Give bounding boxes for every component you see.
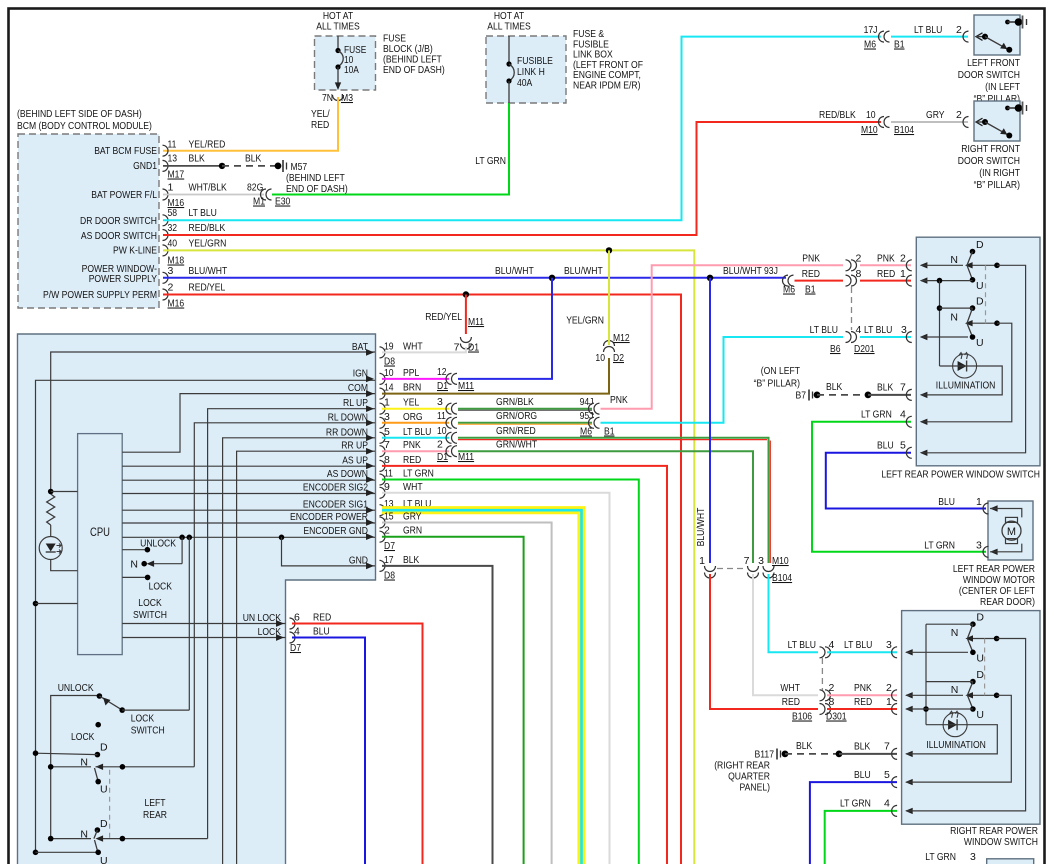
svg-text:RED/BLK: RED/BLK [189, 222, 226, 234]
fusible link H symbol 40A [508, 36, 510, 63]
wire ENCODER POWER internal [122, 522, 375, 524]
svg-text:D301: D301 [826, 711, 847, 723]
wire RED/YEL branch down to M11/D1 pin 7 [465, 295, 467, 335]
wire LT BLU from connector to right rear switch pin 3 [827, 651, 897, 653]
svg-text:2: 2 [886, 682, 892, 694]
svg-text:3: 3 [437, 396, 443, 408]
svg-text:LT BLU: LT BLU [914, 24, 942, 36]
left front door switch contacts [976, 33, 983, 41]
svg-text:ILLUMINATION: ILLUMINATION [936, 380, 996, 392]
svg-text:9: 9 [384, 481, 390, 493]
wire RED from D301 to right rear switch pin 1 [827, 708, 897, 710]
svg-text:GND1: GND1 [133, 160, 157, 172]
svg-text:AS DOWN: AS DOWN [327, 468, 368, 480]
svg-text:2: 2 [856, 253, 862, 265]
svg-text:7: 7 [744, 555, 750, 567]
svg-text:BCM (BODY CONTROL MODULE): BCM (BODY CONTROL MODULE) [17, 120, 152, 132]
svg-text:32: 32 [168, 222, 178, 234]
pin entry arrow [892, 647, 898, 658]
svg-text:RED/YEL: RED/YEL [189, 282, 226, 294]
svg-text:BLU/WHT: BLU/WHT [564, 265, 603, 277]
pin entry arrow [906, 447, 912, 458]
svg-text:D7: D7 [290, 642, 301, 654]
wire LOCK internal [122, 637, 285, 639]
svg-text:ORG: ORG [403, 411, 423, 423]
vertical lamp feed [939, 281, 941, 366]
svg-text:REAR DOOR): REAR DOOR) [980, 596, 1035, 608]
left rear power window motor box [988, 501, 1033, 560]
svg-text:3: 3 [168, 265, 174, 277]
svg-text:4: 4 [294, 626, 300, 638]
svg-text:ILLUMINATION: ILLUMINATION [926, 739, 986, 751]
wire WHT below M10 pin7 to D301 pin 2 [753, 574, 818, 695]
junction dots encoder gnd row [179, 535, 185, 541]
wire lamp lead to pin 7 [906, 725, 997, 754]
svg-text:4: 4 [900, 409, 906, 421]
BCM (body control module) box [18, 134, 159, 308]
svg-text:RR DOWN: RR DOWN [326, 426, 368, 438]
pin entry arrow [892, 704, 897, 715]
svg-text:1: 1 [900, 268, 906, 280]
svg-text:LOCK: LOCK [71, 731, 94, 743]
svg-text:WHT: WHT [403, 340, 423, 352]
svg-text:LT BLU: LT BLU [189, 207, 217, 219]
wire lower switch common to pin 5 [906, 695, 1011, 782]
wire upper switch common to pin 5 [921, 265, 1026, 453]
svg-text:BAT BCM FUSE: BAT BCM FUSE [94, 145, 157, 157]
svg-text:40A: 40A [517, 77, 532, 89]
svg-text:DOOR SWITCH: DOOR SWITCH [958, 155, 1020, 167]
svg-text:BLK: BLK [245, 153, 261, 165]
svg-text:GRN/RED: GRN/RED [496, 425, 536, 437]
svg-text:3: 3 [758, 555, 764, 567]
wire LT BLU from 95J up to B6/D201 [601, 337, 844, 423]
svg-text:D: D [976, 239, 984, 251]
riser N arm to encoder gnd row [181, 537, 183, 563]
wire RR UP internal [237, 451, 375, 864]
svg-text:6: 6 [294, 612, 300, 624]
svg-text:GRN/BLK: GRN/BLK [496, 396, 534, 408]
switch U contact [967, 695, 973, 709]
wire GRN/BLK to connector 94J [458, 408, 592, 410]
connector 93J M6/B1 on RED row [783, 275, 788, 286]
svg-text:13: 13 [168, 153, 178, 165]
lock switch (upper) LOCK contact [122, 576, 147, 578]
wire COM internal to CPU [122, 394, 375, 453]
svg-text:2: 2 [437, 439, 443, 451]
svg-text:BLU: BLU [313, 626, 330, 638]
connector M3 pin 7N below fuse block [333, 95, 344, 101]
svg-text:RED: RED [313, 612, 332, 624]
wire LT GRN to right rear switch pin 4 [825, 811, 897, 864]
illumination lamp circle [943, 713, 967, 737]
pin entry arrow [906, 389, 912, 400]
svg-text:3: 3 [384, 411, 390, 423]
svg-text:D8: D8 [384, 356, 395, 368]
wire ENCODER SIG2 internal [122, 493, 375, 495]
wire BLU/WHT down to M10 pin 1 [709, 278, 711, 563]
svg-text:GRY: GRY [926, 109, 945, 121]
power window main switch box [18, 334, 376, 864]
svg-text:PNK: PNK [854, 682, 872, 694]
svg-text:10: 10 [384, 367, 394, 379]
connector M1 / E30 [261, 189, 267, 200]
right rear power window motor box (cut off at page bottom) [987, 859, 1034, 864]
svg-text:PNK: PNK [610, 394, 628, 406]
connector D201 rows (pins 2,8,4) arcs [846, 260, 852, 271]
svg-text:LT BLU: LT BLU [810, 324, 838, 336]
svg-text:RL DOWN: RL DOWN [328, 411, 368, 423]
svg-text:BLU: BLU [938, 496, 955, 508]
svg-text:AS UP: AS UP [342, 454, 368, 466]
svg-text:D1: D1 [437, 451, 448, 463]
pin entry arrow [906, 260, 912, 271]
svg-text:“B” PILLAR): “B” PILLAR) [974, 179, 1020, 191]
svg-text:N: N [950, 312, 958, 324]
node junction at resistor top [48, 489, 54, 495]
svg-text:U: U [976, 709, 984, 721]
svg-text:SWITCH: SWITCH [133, 609, 167, 621]
svg-text:M10: M10 [861, 124, 878, 136]
svg-text:8: 8 [856, 268, 862, 280]
svg-text:P/W POWER SUPPLY PERM: P/W POWER SUPPLY PERM [43, 289, 157, 301]
svg-text:M3: M3 [341, 92, 353, 104]
svg-text:END OF DASH): END OF DASH) [286, 183, 348, 195]
svg-text:3: 3 [976, 540, 982, 552]
svg-text:RED/YEL: RED/YEL [425, 311, 462, 323]
motor M symbol [1002, 521, 1021, 540]
svg-text:19: 19 [384, 340, 394, 352]
svg-text:LT BLU: LT BLU [864, 324, 892, 336]
wire RED/BLK BCM pin32 to M10 connector [163, 122, 881, 235]
svg-text:COM: COM [348, 382, 368, 394]
wire pin2 to lower switch arm [906, 694, 963, 696]
svg-text:BLK: BLK [189, 153, 205, 165]
CPU block [78, 434, 123, 655]
svg-text:IGN: IGN [353, 367, 368, 379]
svg-text:UN LOCK: UN LOCK [243, 612, 281, 624]
mechanical link dashed [985, 265, 987, 323]
wire upper D to lamp bus [926, 623, 973, 625]
wire UN LOCK internal [122, 623, 285, 625]
svg-text:BAT: BAT [352, 341, 369, 353]
svg-text:CPU: CPU [90, 527, 110, 539]
svg-text:ALL TIMES: ALL TIMES [316, 21, 360, 33]
pin entry arrow [906, 416, 912, 427]
svg-text:4: 4 [884, 798, 890, 810]
svg-text:M11: M11 [468, 316, 484, 328]
svg-text:3: 3 [901, 324, 907, 336]
svg-text:D201: D201 [854, 343, 875, 355]
svg-text:BLK: BLK [854, 741, 870, 753]
svg-text:8: 8 [829, 696, 835, 708]
svg-text:D7: D7 [384, 540, 395, 552]
svg-text:RED: RED [854, 696, 873, 708]
bottom contact row [33, 850, 39, 856]
svg-text:PNK: PNK [802, 253, 820, 265]
svg-text:LT BLU: LT BLU [788, 639, 816, 651]
wire pin3 to lower U contact [921, 336, 968, 338]
svg-text:11: 11 [437, 410, 446, 422]
svg-text:BLK: BLK [877, 382, 893, 394]
svg-text:M11: M11 [458, 380, 474, 392]
svg-text:GRN/ORG: GRN/ORG [496, 410, 537, 422]
svg-text:BAT POWER F/L: BAT POWER F/L [91, 189, 157, 201]
svg-text:10: 10 [595, 352, 605, 364]
svg-text:ALL TIMES: ALL TIMES [487, 21, 531, 33]
pin entry arrow [892, 777, 898, 788]
svg-text:ENCODER SIG1: ENCODER SIG1 [303, 499, 368, 511]
svg-text:M: M [1007, 526, 1016, 538]
svg-text:M10: M10 [772, 555, 789, 567]
svg-text:PPL: PPL [403, 367, 419, 379]
wire GRN/RED to M10 pin 3 [458, 438, 769, 563]
svg-text:REAR: REAR [143, 809, 167, 821]
right front door switch contacts [976, 118, 983, 126]
svg-text:BLK: BLK [403, 554, 419, 566]
svg-text:2: 2 [956, 24, 962, 36]
left front door switch box [974, 15, 1020, 55]
svg-text:D: D [100, 742, 108, 754]
svg-text:2: 2 [829, 682, 835, 694]
svg-text:2: 2 [168, 282, 174, 294]
pin entry arrow [906, 275, 912, 286]
wire RR DOWN internal [223, 438, 375, 864]
svg-text:ENCODER POWER: ENCODER POWER [290, 511, 368, 523]
svg-text:LEFT FRONT: LEFT FRONT [967, 57, 1020, 69]
svg-text:11: 11 [168, 139, 177, 151]
svg-text:5: 5 [384, 426, 390, 438]
svg-text:B104: B104 [894, 124, 914, 136]
svg-text:RED: RED [782, 696, 801, 708]
svg-text:RIGHT FRONT: RIGHT FRONT [961, 143, 1020, 155]
svg-text:2: 2 [384, 525, 390, 537]
wire RL DOWN internal [194, 423, 375, 767]
fuse & fusible link box [486, 36, 566, 103]
svg-text:B1: B1 [894, 39, 905, 51]
svg-text:PNK: PNK [403, 439, 421, 451]
wire RED from 93J to D201 pin 8 and switch pin 1 [795, 280, 844, 282]
pin entry arrow [892, 805, 898, 816]
connector D2 pin 10 / M12 (vertical) [604, 347, 615, 353]
svg-text:POWER SUPPLY: POWER SUPPLY [89, 273, 157, 285]
svg-text:E30: E30 [275, 196, 290, 208]
junction left bus to CPU [33, 601, 39, 607]
fuse F symbol 10A [337, 36, 339, 50]
svg-text:94J: 94J [580, 396, 594, 408]
svg-text:WHT/BLK: WHT/BLK [189, 182, 227, 194]
wire LED bottom to CPU [51, 560, 78, 571]
svg-text:LT GRN: LT GRN [861, 409, 892, 421]
svg-text:U: U [976, 337, 984, 349]
wire YEL/GRN from M12 up to K-line row [608, 250, 610, 345]
svg-text:YEL/RED: YEL/RED [189, 139, 226, 151]
svg-text:3: 3 [970, 851, 976, 863]
svg-text:3: 3 [886, 639, 892, 651]
wire RED/YEL perm supply: right then down page [163, 295, 681, 864]
svg-text:M11: M11 [458, 451, 474, 463]
svg-text:(ON LEFT: (ON LEFT [761, 365, 801, 377]
svg-text:RED: RED [403, 454, 422, 466]
wire RED from D201 to left rear switch pin 1 [860, 280, 911, 282]
svg-text:LT GRN: LT GRN [925, 851, 956, 863]
svg-text:4: 4 [829, 639, 835, 651]
svg-text:N: N [130, 559, 138, 571]
lamp bus vertical [925, 624, 927, 725]
wire lower switch common to pin 4 [921, 323, 1012, 422]
wire pin1 to U contact with junction [921, 280, 973, 282]
wire PNK from D201 to left rear switch pin 2 [860, 264, 911, 266]
ground pigtail of left front door switch [1022, 16, 1024, 29]
svg-text:B1: B1 [805, 284, 816, 296]
riser lock switch lower [188, 537, 190, 710]
wire resistor to LED [50, 525, 52, 537]
svg-text:GND: GND [349, 554, 368, 566]
svg-text:7: 7 [384, 439, 390, 451]
svg-text:UNLOCK: UNLOCK [58, 682, 94, 694]
wire lower D contact [926, 681, 973, 683]
svg-text:D2: D2 [613, 352, 624, 364]
svg-text:5: 5 [900, 440, 906, 452]
svg-text:AS DOOR SWITCH: AS DOOR SWITCH [81, 230, 157, 242]
svg-text:B1: B1 [604, 426, 615, 438]
svg-text:15: 15 [384, 511, 394, 523]
svg-text:LT GRN: LT GRN [475, 155, 506, 167]
resistor R (pull-up) [47, 494, 55, 525]
svg-text:M6: M6 [783, 284, 795, 296]
wire LT GRN to left rear switch pin 4 (from motor) [812, 422, 986, 552]
svg-text:LOCK: LOCK [138, 597, 161, 609]
svg-text:N: N [951, 627, 959, 639]
wire RED below M10 pin1 to D301 pin 8 [710, 574, 818, 709]
svg-text:LT BLU: LT BLU [844, 639, 872, 651]
svg-text:7: 7 [900, 382, 906, 394]
svg-text:2: 2 [956, 109, 962, 121]
wire pin1 to lower U contact [906, 708, 973, 710]
wire GRN/WHT to M10 pin 7 [458, 451, 753, 563]
svg-text:M1: M1 [253, 196, 265, 208]
svg-text:1: 1 [699, 555, 705, 567]
svg-text:WINDOW SWITCH: WINDOW SWITCH [964, 836, 1038, 848]
svg-text:1: 1 [976, 496, 982, 508]
connector M10/B104 (pins 1,7,3) [705, 566, 716, 572]
svg-text:7N: 7N [322, 92, 333, 104]
svg-text:PNK: PNK [877, 253, 895, 265]
svg-text:U: U [100, 855, 108, 864]
illumination lamp circle [953, 354, 977, 378]
svg-text:BLU: BLU [854, 769, 871, 781]
svg-text:(BEHIND LEFT SIDE OF DASH): (BEHIND LEFT SIDE OF DASH) [17, 108, 142, 120]
wire YEL/GRN BCM pin40 east then down page [163, 250, 694, 864]
wire BLU/WHT from M11 up to supply row [458, 278, 552, 379]
svg-text:YEL/GRN: YEL/GRN [189, 237, 227, 249]
svg-text:11: 11 [384, 468, 393, 480]
svg-text:D: D [976, 669, 984, 681]
svg-text:U: U [100, 784, 108, 796]
svg-text:LT GRN: LT GRN [403, 468, 434, 480]
svg-text:17: 17 [384, 554, 394, 566]
ground pigtail of right front door switch [1022, 102, 1024, 115]
svg-text:NEAR IPDM E/R): NEAR IPDM E/R) [573, 80, 641, 92]
svg-text:WHT: WHT [780, 682, 800, 694]
svg-text:DR DOOR SWITCH: DR DOOR SWITCH [80, 215, 157, 227]
svg-text:U: U [976, 652, 984, 664]
svg-text:N: N [951, 684, 959, 696]
wire BLK dashed from B7 to left rear switch pin 7 [817, 394, 868, 396]
svg-text:2: 2 [900, 253, 906, 265]
svg-text:RED: RED [802, 268, 821, 280]
switch U contact [967, 323, 973, 337]
svg-text:14: 14 [384, 382, 394, 394]
junction on YEL/GRN wire [606, 247, 612, 253]
wire BLU/WHT power supply row to 93J connector [163, 277, 786, 279]
svg-text:10: 10 [437, 425, 447, 437]
svg-text:12: 12 [437, 366, 447, 378]
svg-text:B106: B106 [792, 711, 812, 723]
wire LT BLU BCM pin58 to 17J connector [163, 37, 881, 221]
svg-text:END OF DASH): END OF DASH) [383, 64, 445, 76]
svg-text:N: N [950, 254, 958, 266]
switch U contact [967, 639, 973, 653]
svg-text:DOOR SWITCH: DOOR SWITCH [958, 69, 1020, 81]
ground terminal M57 [282, 160, 284, 172]
svg-text:58: 58 [168, 207, 178, 219]
svg-text:LT GRN: LT GRN [924, 540, 955, 552]
svg-text:40: 40 [168, 237, 178, 249]
svg-text:BRN: BRN [403, 382, 421, 394]
svg-text:PW K-LINE: PW K-LINE [113, 245, 157, 257]
svg-text:4: 4 [856, 324, 862, 336]
wire YEL/RED from fuse M3 to BCM pin 11 [163, 97, 338, 151]
switch U contact [967, 265, 973, 280]
svg-text:“B” PILLAR): “B” PILLAR) [754, 378, 800, 390]
wire pin2 to switch arm [921, 264, 963, 266]
svg-text:LOCK: LOCK [149, 581, 172, 593]
svg-text:1: 1 [886, 696, 892, 708]
wire GRY to right front door switch [891, 121, 968, 123]
right front door switch box [974, 101, 1020, 141]
connector M11/D1 pin 7 (vertical) [460, 337, 471, 343]
svg-text:GRY: GRY [403, 511, 422, 523]
wire AS DOWN internal [122, 479, 375, 481]
svg-text:B104: B104 [772, 572, 792, 584]
svg-text:D8: D8 [384, 570, 395, 582]
pin entry arrow [892, 690, 898, 701]
svg-text:5: 5 [884, 769, 890, 781]
wire ENCODER SIG1 internal [122, 509, 375, 511]
svg-text:8: 8 [384, 454, 390, 466]
svg-text:10A: 10A [344, 65, 359, 76]
mechanical link dashed [984, 639, 986, 696]
svg-text:RED/BLK: RED/BLK [819, 109, 856, 121]
wire LT GRN from fusible link to connector E30 [272, 103, 509, 195]
wire IGN internal to left bus [36, 380, 376, 852]
svg-text:LOCK: LOCK [131, 713, 154, 725]
wire lower D contact [940, 307, 973, 309]
svg-text:U: U [976, 280, 984, 292]
svg-text:BLU/WHT: BLU/WHT [695, 507, 707, 546]
wire LT BLU from D201 to left rear switch pin 3 [860, 336, 911, 338]
svg-text:PANEL): PANEL) [740, 782, 771, 794]
svg-text:D1: D1 [437, 380, 448, 392]
wire PNK from 94J up to left rear switch pin 2 [601, 265, 844, 408]
wire PNK from D301 to right rear switch pin 2 [827, 694, 897, 696]
wire ENCODER GND internal [122, 536, 375, 538]
svg-text:LEFT REAR POWER WINDOW SWITCH: LEFT REAR POWER WINDOW SWITCH [881, 469, 1040, 481]
svg-text:LEFT: LEFT [144, 797, 166, 809]
wire BLU to left rear switch pin 5 (from motor) [826, 453, 986, 509]
svg-text:1: 1 [384, 397, 390, 409]
